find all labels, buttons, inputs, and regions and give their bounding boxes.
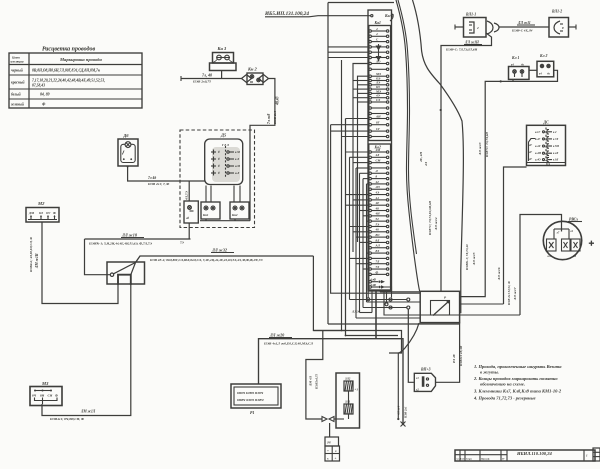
pin row Ka1-9 <box>369 75 371 77</box>
svg-text:П4: П4 <box>545 162 550 166</box>
pin row Ka2-25 spare <box>369 281 371 283</box>
terminal block Kl1 <box>509 56 530 79</box>
wire stub <box>367 183 370 185</box>
wire stub <box>353 231 369 233</box>
svg-text:ПЭВ 2х1; 7, Ф: ПЭВ 2х1; 7, Ф <box>147 182 169 186</box>
svg-text:ПЭВ+С: 7Э,7Л,6Н: ПЭВ+С: 7Э,7Л,6Н <box>485 132 489 158</box>
svg-text:4М: 4М <box>375 148 381 152</box>
title block corner cell <box>593 448 600 461</box>
wire fan vertical <box>349 157 351 299</box>
svg-text:ЛЛ ж32: ЛЛ ж32 <box>211 248 227 253</box>
pin row Ka1-18 <box>369 117 371 119</box>
wire VL1 to VL2 <box>499 26 549 28</box>
svg-text:СЭ: СЭ <box>376 98 380 102</box>
svg-text:Р1: Р1 <box>250 410 254 415</box>
pin row Ka2-4 <box>369 167 371 169</box>
svg-text:2. Концы проводов маркироват: 2. Концы проводов маркировать помятно <box>473 376 558 381</box>
svg-text:л7: л7 <box>556 232 560 235</box>
wire stub <box>358 101 370 103</box>
wire Kl1 bottom tap <box>512 79 514 81</box>
wire stub <box>350 156 370 158</box>
svg-text:в.4Л: в.4Л <box>553 152 558 155</box>
svg-text:1. Провода, прокомченные шнур: 1. Провода, прокомченные шнуркть Везита <box>474 364 562 369</box>
pin row Ka1-14 <box>369 97 371 99</box>
connector section Ka2 <box>369 144 391 290</box>
svg-text:зеленый: зеленый <box>10 102 24 107</box>
svg-text:ЛЛ ж18: ЛЛ ж18 <box>121 233 138 238</box>
svg-text:6лФ: 6лФ <box>371 278 377 282</box>
wire relay right vertical to VP+3 <box>436 323 460 383</box>
unit R1 <box>231 384 281 415</box>
notes text <box>473 364 562 401</box>
pin row Ka2-19 <box>369 247 371 249</box>
wire stub <box>350 226 370 228</box>
wire y312 <box>360 312 373 314</box>
svg-text:ЛЭ: ЛЭ <box>375 185 380 189</box>
svg-text:ДМ: ДМ <box>28 211 34 215</box>
wire fan vertical <box>366 184 368 302</box>
svg-text:ДС: ДС <box>543 121 550 125</box>
svg-text:вЛ: вЛ <box>573 255 576 258</box>
fuse grid box <box>325 437 340 461</box>
pin row Ka2-16 <box>369 231 371 233</box>
svg-text:Кп1: Кп1 <box>202 213 209 217</box>
svg-text:ИБИЛ.110.100,24: ИБИЛ.110.100,24 <box>516 451 552 456</box>
svg-text:ПЭВ 4х1,5 ж0,Е0,СЛ,40,МЭ,С: ПЭВ 4х1,5 ж0,Е0,СЛ,40,МЭ,СЛ <box>263 341 314 345</box>
pin row Ka1-5 <box>369 51 371 53</box>
pin row Ka2-17 <box>369 236 371 238</box>
pin row Ka2-13 <box>369 215 371 217</box>
switch unit DS <box>527 121 566 167</box>
svg-text:Ка1: Ка1 <box>374 21 381 25</box>
pin row Ka1-16 <box>369 107 371 109</box>
wire fan vertical <box>362 179 364 308</box>
svg-text:ЛЛ ж16: ЛЛ ж16 <box>497 267 501 281</box>
svg-text:Кн 2: Кн 2 <box>247 67 258 72</box>
svg-text:+: + <box>327 449 329 453</box>
wire spare loop right <box>381 287 392 298</box>
pin row Ka2-6 <box>369 177 371 179</box>
svg-text:а.1Г: а.1Г <box>535 131 540 134</box>
wire to RV6x <box>520 215 562 316</box>
svg-text:ЛЛ ж17: ЛЛ ж17 <box>513 287 517 301</box>
wire fan vertical <box>345 119 347 336</box>
svg-text:РЛ 4Е: РЛ 4Е <box>452 353 456 363</box>
pin row Ka2-3 <box>369 161 371 163</box>
svg-text:Ф: Ф <box>55 394 58 398</box>
wire leader to connector <box>309 16 371 17</box>
svg-text:Ф: Ф <box>53 211 56 215</box>
wire stub <box>360 241 370 243</box>
wire stub <box>358 92 370 94</box>
wire linking contactors <box>200 220 250 222</box>
svg-text:обозначению на схеме.: обозначению на схеме. <box>480 382 525 387</box>
wire fan vertical A <box>341 60 343 331</box>
wire connector to bus3 <box>375 291 377 339</box>
wire rows to far vertical <box>328 46 369 48</box>
pin row Ka2-18 <box>369 241 371 243</box>
svg-text:черный: черный <box>11 68 23 73</box>
pin row Ka1-7 <box>369 62 371 64</box>
svg-text:ВП+3: ВП+3 <box>420 368 431 372</box>
svg-text:7л, 48: 7л, 48 <box>202 73 212 78</box>
wire stub <box>360 172 370 174</box>
svg-text:а.4О: а.4О <box>535 159 541 162</box>
pin row Ka2-8 <box>369 188 371 190</box>
svg-text:84, 89: 84, 89 <box>40 93 50 97</box>
wire stub <box>356 236 369 238</box>
svg-text:ПЭВ4х1; 4Л,80,8Л,СЛ, Ф: ПЭВ4х1; 4Л,80,8Л,СЛ, Ф <box>29 237 33 273</box>
svg-text:ЛЛ ж15: ЛЛ ж15 <box>472 252 476 266</box>
pin row Ka1-15 <box>369 101 371 103</box>
wire stub <box>360 210 370 212</box>
svg-text:4Н: 4Н <box>375 212 381 216</box>
wire top leader <box>328 2 394 4</box>
svg-text:8Н: 8Н <box>40 394 45 398</box>
svg-text:СН: СН <box>48 394 53 398</box>
relay switch box <box>107 262 145 285</box>
pin row Ka2-24 <box>369 273 371 275</box>
wire from D6 into D5 <box>128 166 205 181</box>
wire stub long <box>331 124 369 126</box>
svg-text:48,43: 48,43 <box>276 96 280 106</box>
svg-text:4: 4 <box>375 32 378 36</box>
svg-text:7л ж8: 7л ж8 <box>267 114 271 124</box>
svg-text:7,17,18,20,21,22,24,40,42,48,4: 7,17,18,20,21,22,24,40,42,48,4В,4Е,49,51… <box>32 79 105 83</box>
svg-text:7Э: 7Э <box>180 241 184 245</box>
svg-text:ПЭВ№-1; 5,Н,2Н,44,4Е,4Н,51,6Э: ПЭВ№-1; 5,Н,2Н,44,4Е,4Н,51,6Э, Ф,7Л,7Э <box>88 242 153 246</box>
svg-text:4Г: 4Г <box>528 144 532 147</box>
svg-text:ПЭВ+С: 7Л,7Э,Е5,6Н: ПЭВ+С: 7Л,7Э,Е5,6Н <box>445 48 478 52</box>
svg-text:Кл 1: Кл 1 <box>511 56 519 60</box>
svg-text:Д5: Д5 <box>220 133 227 138</box>
svg-text:4д: 4д <box>185 216 190 220</box>
pin row Ka2-5 <box>369 172 371 174</box>
svg-text:8В,8Н,О8,Н8,6Н,7Л,80Г,8Э1,СД,8: 8В,8Н,О8,Н8,6Н,7Л,80Г,8Э1,СД,8Н,8М,7н <box>32 69 100 73</box>
svg-text:М2: М2 <box>37 201 45 206</box>
svg-text:АИ: АИ <box>375 114 381 118</box>
svg-text:Маркировка провода: Маркировка провода <box>59 57 102 62</box>
svg-text:8О: 8О <box>376 233 381 237</box>
svg-text:+: + <box>335 457 337 461</box>
wire fan vertical <box>355 168 357 318</box>
pin row Ka1-12 <box>369 88 371 90</box>
svg-text:ЗЛ2: ЗЛ2 <box>344 377 351 381</box>
svg-text:Ё: Ё <box>217 163 220 168</box>
wire stub <box>353 88 369 90</box>
unit M3 <box>30 381 62 406</box>
pin row Ka2-1 <box>369 151 371 153</box>
svg-text:АЛ: АЛ <box>375 244 381 248</box>
plug VL1 <box>464 13 500 38</box>
relay switch with arrow <box>420 291 459 322</box>
svg-text:изоляции: изоляции <box>11 60 24 64</box>
connector Kn2 <box>242 67 269 85</box>
wire stub <box>367 220 370 222</box>
svg-text:4Г: 4Г <box>528 151 532 154</box>
spare wire B <box>363 307 407 309</box>
svg-text:в.М: в.М <box>235 150 240 154</box>
pin row Ka1-11 <box>369 84 371 86</box>
svg-text:2: 2 <box>476 26 479 30</box>
connector VP+3 <box>414 368 435 392</box>
wire loop from VL1 down <box>441 33 492 291</box>
bus wire LL zh18 <box>85 238 191 240</box>
svg-text:ПЭВ2х0,75: ПЭВ2х0,75 <box>315 374 319 390</box>
svg-text:42: 42 <box>375 180 380 184</box>
wire stub <box>356 167 369 169</box>
pin row Ka1-8 <box>369 68 371 70</box>
svg-text:в жгуты.: в жгуты. <box>480 370 499 375</box>
pin row Ka2-2 <box>369 156 371 158</box>
svg-text:8Ч: 8Ч <box>32 394 37 398</box>
wire VL1 left tail <box>455 26 464 28</box>
wire DS drop to relay right <box>460 303 504 305</box>
wire stub <box>367 252 370 254</box>
wire stub <box>353 97 369 99</box>
dashed enclosure <box>180 130 255 228</box>
wire y318 <box>356 317 420 319</box>
svg-text:ЛЛЭ1: ЛЛЭ1 <box>351 310 361 314</box>
pin row Ka1-10 <box>369 79 371 81</box>
svg-text:Кл 2: Кл 2 <box>539 54 547 58</box>
wire bus feed to switch <box>85 239 111 275</box>
wire from M2 to relay box <box>42 222 118 304</box>
svg-text:4Л: 4Л <box>424 161 428 167</box>
svg-text:4Е: 4Е <box>375 201 380 205</box>
wire stub <box>346 194 370 196</box>
harness tail <box>399 323 420 353</box>
svg-text:ЛЛ ж13: ЛЛ ж13 <box>478 142 482 156</box>
svg-text:ЛМ 4Л: ЛМ 4Л <box>309 375 313 387</box>
svg-text:48: 48 <box>375 206 380 210</box>
svg-text:ВЛ1-2: ВЛ1-2 <box>551 10 562 14</box>
pin row Ka2-10 <box>369 199 371 201</box>
svg-text:Стрк: Стрк <box>466 458 473 461</box>
svg-text:40: 40 <box>375 228 380 232</box>
wire fan vertical <box>359 173 361 312</box>
svg-text:ЛЛ ж20: ЛЛ ж20 <box>269 333 284 338</box>
pin row Ka2-22 <box>369 263 371 265</box>
svg-text:8ПВЧ 8Л8Ч ПЭВЧ: 8ПВЧ 8Л8Ч ПЭВЧ <box>237 398 264 402</box>
pin row Ka2-14 <box>369 220 371 222</box>
RV6x internal bracket <box>554 228 569 230</box>
svg-text:Ё: Ё <box>217 149 220 154</box>
svg-text:а.4Г: а.4Г <box>535 138 540 141</box>
wire colour table <box>9 46 142 109</box>
svg-text:7л 4д: 7л 4д <box>148 176 156 180</box>
pin row Ka2-26 spare <box>369 286 371 288</box>
pin row Ka1-4 <box>369 46 371 48</box>
spare wire A <box>350 299 407 301</box>
svg-text:4Л,7Э: 4Л,7Э <box>185 190 189 201</box>
svg-text:ПЭВ 2х1: ПЭВ 2х1 <box>404 406 408 419</box>
lamp D6 <box>118 133 138 166</box>
svg-text:3. Клеммники Кл7, Кл8,Кл9 ти: 3. Клеммники Кл7, Кл8,Кл9 типа КМ1-10-2 <box>473 389 562 394</box>
harness arrows inside Ka1 <box>378 44 380 61</box>
svg-text:ПЭВ 4Е-4; 80Л,80Г,СЛ,80Л,84Л,: ПЭВ 4Е-4; 80Л,80Г,СЛ,80Л,84Л,СЛ, 7,4Е,4Ц… <box>149 258 263 262</box>
svg-text:Дб: Дб <box>123 133 130 138</box>
svg-text:ПЭВ 2х1 52,51, Ф: ПЭВ 2х1 52,51, Ф <box>507 281 511 306</box>
svg-text:Ал.Подп: Ал.Подп <box>455 458 466 461</box>
svg-text:РВСх: РВСх <box>569 218 578 222</box>
pin row Ka1-19 <box>369 124 371 126</box>
title block <box>455 448 600 461</box>
pin row Ka1-6 <box>369 56 371 58</box>
wire from M3 to relay box <box>42 284 131 416</box>
wire fan vertical B <box>353 64 369 253</box>
spare end stubs <box>367 291 369 298</box>
contactor Kp1 <box>201 186 220 221</box>
wire Kl2 loop to bus <box>460 70 558 296</box>
svg-text:7Э: 7Э <box>376 265 380 269</box>
wire stub <box>363 268 369 270</box>
svg-text:4Л: 4Л <box>375 153 381 157</box>
svg-text:4: 4 <box>375 27 378 31</box>
svg-text:52: 52 <box>376 217 380 221</box>
bus wire LL zh32 <box>136 256 314 263</box>
svg-text:ПЭВ+С 4Е,Л4: ПЭВ+С 4Е,Л4 <box>511 29 533 33</box>
svg-text:44: 44 <box>375 196 380 200</box>
contact Kp3 <box>184 201 198 223</box>
svg-text:х2: х2 <box>415 389 419 392</box>
pin row Ka1-1 <box>369 30 371 32</box>
wire Kl1-Kl2 <box>529 69 537 71</box>
svg-text:4Л ж4: 4Л ж4 <box>397 405 401 416</box>
wire stub <box>353 199 369 201</box>
wire RV6x feed <box>384 291 520 315</box>
pin row Ka2-20 <box>369 252 371 254</box>
svg-text:СГ: СГ <box>376 127 380 131</box>
RV6x pin boxes <box>547 239 557 251</box>
svg-text:ЗЧ: ЗЧ <box>326 441 331 445</box>
svg-text:Ё: Ё <box>217 156 220 161</box>
pin row Ka2-7 <box>369 183 371 185</box>
svg-text:в.7Л: в.7Л <box>553 138 558 141</box>
svg-text:ПЭВ+С; 7Л,7Э,8Э,6Н,6Н: ПЭВ+С; 7Л,7Э,8Э,6Н,6Н <box>428 201 432 236</box>
svg-text:8Г: 8Г <box>376 121 380 125</box>
svg-text:М3: М3 <box>41 381 49 386</box>
svg-text:х: х <box>326 457 329 461</box>
svg-text:в.5М: в.5М <box>553 145 559 148</box>
pin row Ka1-20 <box>369 130 371 132</box>
pin row Ka2-23 <box>369 268 371 270</box>
svg-text:Кн 3: Кн 3 <box>217 46 228 51</box>
svg-text:ПЭВ№-1; 7Л,7Э,40: ПЭВ№-1; 7Л,7Э,40 <box>465 244 469 271</box>
svg-text:ЛЛ ж14: ЛЛ ж14 <box>434 217 438 231</box>
svg-text:а.М: а.М <box>235 164 240 168</box>
svg-text:87,58,43: 87,58,43 <box>32 84 45 88</box>
pin row Ka2-9 <box>369 193 371 195</box>
wire stub <box>353 162 369 164</box>
svg-text:ЛЛ ж11: ЛЛ ж11 <box>517 21 531 25</box>
button Kn3 <box>210 46 237 79</box>
wire stub <box>350 257 370 259</box>
svg-text:красный: красный <box>11 80 25 85</box>
pin row Ka2-21 <box>369 257 371 259</box>
wire long vertical from top <box>327 3 329 325</box>
wire stub <box>363 215 369 217</box>
svg-text:Е: Е <box>561 26 564 30</box>
inline connector pair <box>322 417 327 422</box>
wire stub 118 <box>346 118 370 120</box>
svg-text:4Г: 4Г <box>528 158 532 161</box>
junction dots bottom <box>341 330 343 332</box>
wire fan vertical D <box>331 125 421 294</box>
wire to Kn3 <box>181 78 242 80</box>
svg-text:ЛМ ж1Л: ЛМ ж1Л <box>80 410 96 414</box>
harness boundary wavy line 2 <box>413 0 464 313</box>
svg-text:СМ: СМ <box>376 159 381 163</box>
pin row Ka1-17 <box>369 112 371 114</box>
wire stub <box>363 178 369 180</box>
wire spare down <box>397 353 399 418</box>
svg-text:Кп2: Кп2 <box>231 213 238 217</box>
svg-text:а.4М: а.4М <box>535 152 541 155</box>
contactor Kp2 <box>230 186 249 221</box>
unit M2 <box>26 201 59 222</box>
svg-text:4. Провода 71,72,73 - резервн: 4. Провода 71,72,73 - резервные <box>473 396 536 401</box>
round connector RV6x <box>543 218 594 260</box>
pin row Ka1-21 <box>369 135 371 137</box>
svg-text:х1: х1 <box>415 377 419 380</box>
svg-text:+1: +1 <box>355 388 359 392</box>
wire from DS down <box>504 167 527 304</box>
relay unit D5 <box>205 133 243 185</box>
pin row Ka1-13 <box>369 92 371 94</box>
connector outer box KaF <box>368 10 392 291</box>
svg-text:Расцветка проводов: Расцветка проводов <box>42 46 96 53</box>
svg-text:ПЭВ 2х1: ПЭВ 2х1 <box>273 111 277 125</box>
pin row Ka2-12 <box>369 209 371 211</box>
plug VL1-2 <box>549 10 569 38</box>
connector section Ka1 <box>369 26 391 141</box>
svg-text:5Э: 5Э <box>376 222 380 226</box>
wire to VP+3 <box>408 309 414 382</box>
wire stub long <box>342 136 370 138</box>
svg-text:ЛЛ ж1Н: ЛЛ ж1Н <box>464 41 479 45</box>
svg-text:Ф: Ф <box>376 270 379 274</box>
svg-text:вЛ: вЛ <box>548 255 551 258</box>
terminal block Kl2 <box>537 54 554 77</box>
wire stub long <box>331 130 369 132</box>
svg-text:6лФ: 6лФ <box>371 283 377 287</box>
svg-text:в.2: в.2 <box>553 131 557 134</box>
harness boundary wavy line 1b <box>398 0 417 254</box>
spare end mark <box>402 423 404 425</box>
pin row Ka2-11 <box>369 204 371 206</box>
unit ZL (lamps) <box>334 373 360 428</box>
svg-text:Прокоф.: Прокоф. <box>480 458 490 461</box>
wire to ZL box <box>306 331 323 420</box>
wire ZL to fuse grid <box>329 423 331 437</box>
pin row Ka1-3 <box>369 40 371 42</box>
pin row Ka2-15 <box>369 225 371 227</box>
svg-text:ПЭВ2х1 4Е,4Н: ПЭВ2х1 4Е,4Н <box>459 345 463 367</box>
wire fan vertical C <box>358 76 370 242</box>
svg-text:Ф: Ф <box>42 102 46 107</box>
svg-text:4Э: 4Э <box>375 190 380 194</box>
wire relay left entry <box>379 290 381 293</box>
wire from Kn2 down to relay box <box>250 79 275 221</box>
wire stub <box>353 80 369 82</box>
wire stub <box>356 263 369 265</box>
wire stub <box>346 204 370 206</box>
wire branch to Kp3 <box>188 181 190 201</box>
svg-text:ПЭВ 2х0,75: ПЭВ 2х0,75 <box>192 80 211 84</box>
harness boundary wavy line 1 <box>396 0 420 291</box>
wire y302 to relay <box>367 301 421 303</box>
